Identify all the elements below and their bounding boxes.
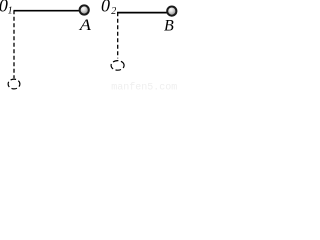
svg-text:B: B	[164, 18, 174, 35]
dashed vertical line below O2	[117, 12, 119, 58]
rod from O2 to ball B	[117, 12, 168, 14]
svg-text:1: 1	[8, 6, 13, 17]
ball B	[167, 7, 176, 16]
svg-text:0: 0	[101, 0, 110, 15]
rod from O1 to ball A	[14, 10, 80, 12]
svg-text:2: 2	[111, 6, 116, 17]
svg-text:manfen5.com: manfen5.com	[111, 81, 177, 93]
ball A	[80, 5, 89, 14]
dashed circle: lowest position of ball A	[8, 79, 20, 89]
dashed vertical line below O1	[13, 10, 15, 78]
dashed circle: lowest position of ball B	[111, 61, 124, 71]
svg-text:A: A	[79, 17, 92, 34]
